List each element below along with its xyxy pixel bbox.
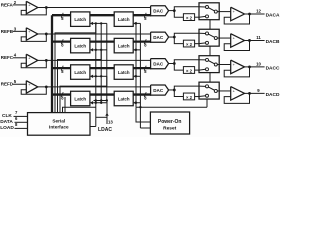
wire switch output <box>217 90 230 92</box>
wire to x2 amplifier <box>174 64 183 71</box>
bus 8-bit to latches <box>52 67 71 69</box>
wire output buffer feedback <box>224 93 249 103</box>
svg-text:LDAC: LDAC <box>98 127 112 133</box>
op-amp output buffer DACB <box>231 34 245 48</box>
svg-text:Latch: Latch <box>118 17 130 22</box>
bus width slash 8 <box>61 39 63 44</box>
svg-text:Latch: Latch <box>74 70 86 75</box>
DAC block channel 3 <box>151 59 169 69</box>
node buffer output <box>45 33 48 36</box>
wire latch1 clock <box>93 49 107 51</box>
wire latch2 clock <box>136 49 140 51</box>
wire riser stub <box>64 97 66 113</box>
bus riser from serial interface <box>51 15 53 112</box>
wire x2 to switch <box>195 96 199 98</box>
bus 8-bit to latches <box>52 93 71 95</box>
wire to output pin <box>245 13 265 15</box>
serial interface block <box>28 113 91 136</box>
wire POR connect 2 <box>140 127 150 129</box>
latch 2 channel 4 <box>114 91 133 106</box>
wire to x2 amplifier <box>174 90 183 97</box>
wire control riser C <box>106 23 108 100</box>
wire buffer output <box>38 7 47 9</box>
wire to x2 amplifier <box>174 37 183 44</box>
svg-text:REFC: REFC <box>1 55 14 60</box>
svg-text:Serial: Serial <box>52 119 65 124</box>
wire to x2 amplifier <box>174 11 183 18</box>
wire REFC input <box>13 57 26 59</box>
wire switch control <box>209 20 211 30</box>
node buffer output <box>45 59 48 62</box>
op-amp input buffer REFB <box>26 28 38 41</box>
op-amp output buffer DACC <box>231 60 245 74</box>
bus width slash 8 <box>61 66 63 71</box>
latch 1 channel 1 <box>71 12 90 27</box>
svg-text:DACB: DACB <box>266 39 280 45</box>
latch1 clock arrow <box>90 22 93 25</box>
node DAC output <box>173 9 176 12</box>
wire DATA <box>15 121 29 123</box>
svg-text:DATA: DATA <box>0 119 13 125</box>
wire output buffer feedback <box>224 67 249 77</box>
bus 8-bit to latches <box>52 14 71 16</box>
node DAC output <box>173 89 176 92</box>
svg-text:DAC: DAC <box>153 9 164 14</box>
wire switch output <box>217 64 230 66</box>
latch 2 channel 3 <box>114 65 133 80</box>
op-amp output buffer DACA <box>231 7 245 21</box>
node DAC output <box>173 62 176 65</box>
wire buffer output <box>38 33 47 35</box>
DAC block channel 1 <box>151 6 169 16</box>
svg-text:× 2: × 2 <box>186 15 193 20</box>
x2 gain block <box>183 93 194 100</box>
range switch channel 2 <box>199 29 219 46</box>
wire direct gain path <box>174 60 199 64</box>
wire switch control drop <box>206 99 208 107</box>
wire control line B <box>136 106 207 108</box>
wire output buffer feedback <box>224 14 249 24</box>
wire latch2 clock <box>136 22 140 24</box>
bus width slash 8 (DAC side) <box>144 92 146 97</box>
wire buffer output <box>38 86 47 88</box>
wire latch1 clock <box>93 22 107 24</box>
svg-text:LOAD: LOAD <box>0 125 14 131</box>
latch 1 channel 3 <box>71 65 90 80</box>
wire buffer output <box>38 59 47 61</box>
wire x2 to switch <box>195 69 199 71</box>
range switch channel 3 <box>199 56 219 73</box>
svg-text:Latch: Latch <box>118 70 130 75</box>
svg-text:DAC: DAC <box>153 88 164 93</box>
wire REFA input <box>13 4 26 6</box>
switch wiper <box>208 87 214 90</box>
wire switch output <box>217 11 230 13</box>
op-amp output buffer DACD <box>231 87 245 101</box>
node output <box>248 66 251 69</box>
wire switch output <box>217 37 230 39</box>
wire switch control <box>209 73 211 83</box>
svg-text:DACC: DACC <box>266 65 280 71</box>
wire DAC output <box>169 89 175 91</box>
wire output buffer feedback <box>224 40 249 50</box>
wire CLK <box>14 115 29 117</box>
wire x2 to switch <box>195 16 199 18</box>
wire to output pin <box>245 66 265 68</box>
op-amp input buffer REFD <box>26 81 38 94</box>
svg-text:13: 13 <box>108 120 113 125</box>
latch 1 channel 2 <box>71 38 90 53</box>
range switch channel 1 <box>199 3 219 20</box>
svg-text:DAC: DAC <box>153 35 164 40</box>
svg-text:Power-On: Power-On <box>158 119 182 125</box>
svg-text:× 2: × 2 <box>186 68 193 73</box>
svg-text:10: 10 <box>256 61 261 66</box>
svg-text:× 2: × 2 <box>186 42 193 47</box>
svg-text:Latch: Latch <box>74 97 86 102</box>
latch 2 channel 2 <box>114 38 133 53</box>
wire buffer feedback <box>21 8 46 15</box>
x2 gain block <box>183 14 194 21</box>
latch 2 channel 1 <box>114 12 133 27</box>
wire direct gain path <box>174 86 199 90</box>
svg-text:Latch: Latch <box>74 44 86 49</box>
wire switch control <box>209 46 211 56</box>
svg-text:Latch: Latch <box>74 17 86 22</box>
svg-text:Interface: Interface <box>49 125 69 130</box>
wire control line A <box>94 100 107 102</box>
wire latch2 clock <box>136 75 140 77</box>
wire buffer feedback <box>21 34 46 41</box>
latch1 clock arrow <box>90 75 93 78</box>
latch2 clock arrow <box>133 22 136 25</box>
wire LDAC <box>106 101 108 125</box>
bus width slash 8 <box>61 92 63 97</box>
svg-text:CLK: CLK <box>2 113 12 119</box>
bus width slash 8 (DAC side) <box>144 66 146 71</box>
wire reference to DAC <box>46 33 151 35</box>
x2 gain block <box>183 67 194 74</box>
svg-text:REFA: REFA <box>1 2 14 7</box>
switch wiper <box>208 61 214 64</box>
svg-text:DACA: DACA <box>266 13 280 19</box>
latch 1 channel 4 <box>71 91 90 106</box>
DAC block channel 4 <box>151 85 169 95</box>
wire POR connect 1 <box>136 107 150 122</box>
svg-text:REFD: REFD <box>1 82 14 87</box>
bus width slash 8 <box>61 13 63 18</box>
wire latch1 clock <box>93 75 107 77</box>
DAC block channel 2 <box>151 32 169 42</box>
svg-text:Latch: Latch <box>118 97 130 102</box>
wire DAC output <box>169 10 175 12</box>
latch2 clock arrow <box>133 48 136 51</box>
wire latch1 strobe channel 4 <box>63 107 96 112</box>
node output <box>248 39 251 42</box>
wire latch1 strobe channel 2 <box>58 50 102 113</box>
svg-text:DAC: DAC <box>153 61 164 66</box>
svg-text:12: 12 <box>256 9 261 14</box>
wire direct gain path <box>174 33 199 37</box>
wire to output pin <box>245 92 265 94</box>
node buffer output <box>45 85 48 88</box>
wire REFD input <box>13 83 26 85</box>
wire buffer feedback <box>21 87 46 94</box>
wire latch1 strobe channel 1 <box>55 23 96 112</box>
wire POR riser <box>139 23 141 128</box>
wire reference to DAC <box>46 7 151 9</box>
wire latch1 clock <box>93 102 107 104</box>
svg-text:REFB: REFB <box>1 29 14 34</box>
node buffer output <box>45 6 48 9</box>
bus 8-bit to latches <box>52 41 71 43</box>
wire reference to DAC <box>46 86 151 88</box>
latch2 clock arrow <box>133 101 136 104</box>
latch2 clock arrow <box>133 75 136 78</box>
wire latch1 strobe channel 3 <box>60 76 107 112</box>
latch1 clock arrow <box>90 101 93 104</box>
wire reference to DAC <box>46 59 151 61</box>
switch wiper <box>208 8 214 11</box>
range switch channel 4 <box>199 82 219 99</box>
x2 gain block <box>183 40 194 47</box>
op-amp input buffer REFC <box>26 54 38 66</box>
power-on reset block <box>150 112 189 134</box>
wire REFB input <box>13 30 26 32</box>
wire DAC output <box>169 36 175 38</box>
wire DAC output <box>169 63 175 65</box>
wire LDAC branch <box>96 116 107 118</box>
node output <box>248 13 251 16</box>
svg-text:DACD: DACD <box>266 92 280 98</box>
node DAC output <box>173 36 176 39</box>
op-amp input buffer REFA <box>26 1 38 14</box>
switch wiper <box>208 34 214 37</box>
bus width slash 8 (DAC side) <box>144 13 146 18</box>
svg-text:× 2: × 2 <box>186 95 193 100</box>
wire LDAC riser to latch2 clocks <box>135 23 137 107</box>
wire direct gain path <box>174 7 199 11</box>
wire serial to control <box>90 126 96 128</box>
wire LOAD <box>15 127 29 129</box>
svg-text:Latch: Latch <box>118 44 130 49</box>
wire buffer feedback <box>21 60 46 67</box>
wire to output pin <box>245 39 265 41</box>
bus width slash 8 (DAC side) <box>144 39 146 44</box>
latch1 clock arrow <box>90 48 93 51</box>
svg-text:11: 11 <box>256 35 261 40</box>
wire control riser B <box>100 23 102 100</box>
wire control riser A <box>95 23 97 126</box>
svg-text:Reset: Reset <box>163 125 176 131</box>
wire latch2 clock <box>136 102 140 104</box>
wire x2 to switch <box>195 43 199 45</box>
node output <box>248 92 251 95</box>
